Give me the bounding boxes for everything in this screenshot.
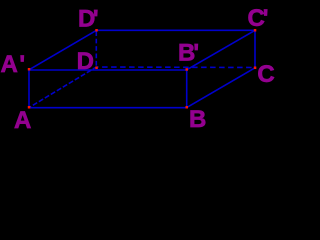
svg-text:': ' [93,5,99,32]
svg-text:A: A [1,51,18,78]
wire edge AB (bottom front) [29,107,187,109]
wire edge B'C' (top right oblique) [187,30,255,70]
wire edge AA' (left front vertical) [28,70,30,108]
wire edge D'A' (top left oblique) [29,30,97,70]
svg-text:A: A [14,107,31,134]
wire edge C'D' (top back) [97,29,256,31]
wire edge CC' (back right vertical) [254,30,256,68]
svg-text:': ' [263,5,269,32]
svg-text:D: D [77,48,94,75]
node A [28,106,31,109]
node C [254,67,256,70]
wire edge DD' hidden (dashed) [95,30,97,67]
wire edge A'B' (top front) [29,69,187,71]
node B' [186,68,189,71]
node C' [254,29,256,32]
node A' [28,68,31,71]
svg-text:B: B [189,106,206,133]
svg-text:': ' [19,51,25,78]
node D [95,67,98,70]
svg-text:': ' [193,40,199,67]
wire edge BC (bottom right oblique) [187,68,255,108]
svg-text:C: C [257,61,274,88]
wire edge BB' (right front vertical) [186,70,188,108]
wire edge DC hidden (dashed) [96,66,255,69]
node D' [95,29,98,32]
wire edge AD hidden (dashed) [29,67,96,108]
node B [186,106,189,109]
